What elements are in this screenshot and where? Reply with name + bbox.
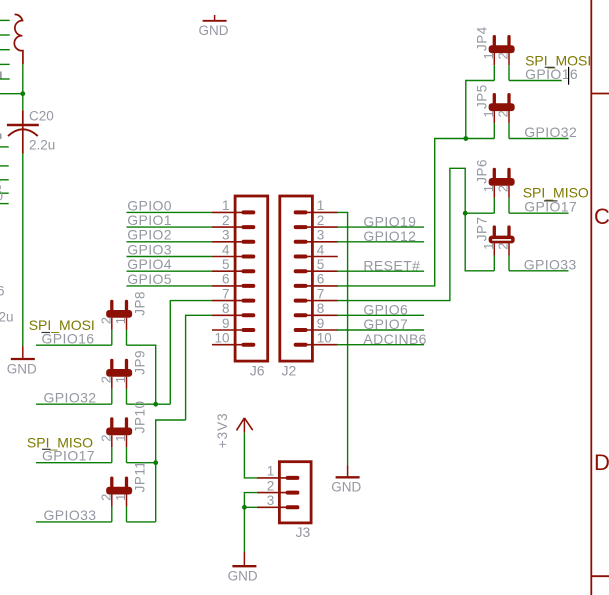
pin 2 of J3 bbox=[257, 492, 287, 494]
wire net GPIO32 (left) bbox=[36, 403, 112, 405]
svg-text:10: 10 bbox=[214, 331, 229, 346]
jumper JP9 bbox=[106, 369, 132, 377]
svg-text:GND: GND bbox=[199, 23, 229, 38]
junction JP10/JP11 bbox=[153, 460, 158, 465]
svg-text:GPIO0: GPIO0 bbox=[127, 197, 172, 213]
junction JP6/JP7 bbox=[463, 211, 468, 216]
svg-text:GPIO7: GPIO7 bbox=[363, 316, 408, 332]
wire +3V3 to J3 pin1 bbox=[244, 433, 257, 478]
wire stub left edge bbox=[0, 78, 10, 80]
frame row divider tick (D/E) bbox=[591, 575, 609, 577]
wire stub left edge bbox=[0, 192, 9, 194]
svg-text:2: 2 bbox=[98, 376, 113, 383]
junction J3 net bbox=[242, 505, 247, 510]
svg-text:6: 6 bbox=[222, 272, 230, 287]
svg-text:GPIO2: GPIO2 bbox=[127, 227, 172, 243]
svg-text:2: 2 bbox=[98, 494, 113, 501]
pin 1 of J3 bbox=[257, 477, 287, 479]
svg-text:1: 1 bbox=[481, 110, 496, 117]
pin 3 of J6 bbox=[212, 241, 242, 243]
svg-text:JP11: JP11 bbox=[132, 461, 147, 493]
wire J6 pin8 net bbox=[186, 315, 213, 420]
svg-text:ADCINB6: ADCINB6 bbox=[363, 331, 426, 347]
wire net GPIO7 bbox=[337, 329, 424, 331]
wire J6 pin7 net bbox=[170, 301, 212, 405]
wire stub left edge bbox=[0, 63, 10, 65]
svg-text:1: 1 bbox=[267, 464, 275, 479]
svg-text:6: 6 bbox=[317, 272, 325, 287]
wire stub left edge bbox=[0, 19, 10, 21]
frame border right bbox=[590, 0, 592, 595]
svg-text:1: 1 bbox=[113, 376, 128, 383]
wire net GPIO17 (left) bbox=[36, 462, 112, 464]
pin 7 of J2 bbox=[305, 300, 337, 302]
svg-text:2u: 2u bbox=[0, 310, 14, 325]
svg-text:0: 0 bbox=[0, 189, 3, 204]
svg-text:J2: J2 bbox=[282, 363, 297, 379]
ground GND (J2 pin1) bbox=[347, 465, 349, 477]
pin 1 of J6 bbox=[212, 211, 242, 213]
wire JP8.1 down bbox=[127, 345, 156, 404]
svg-text:GPIO19: GPIO19 bbox=[363, 213, 416, 229]
wire J6 pin8 vertical leg bbox=[156, 420, 186, 522]
svg-text:2: 2 bbox=[496, 52, 511, 59]
wire JP5.1 bbox=[466, 138, 495, 140]
pin 4 of J2 bbox=[305, 256, 337, 258]
wire net GPIO19 bbox=[337, 226, 424, 228]
svg-text:GPIO3: GPIO3 bbox=[127, 241, 172, 257]
connector J2 bbox=[280, 196, 313, 361]
svg-text:1: 1 bbox=[481, 52, 496, 59]
svg-text:2.2u: 2.2u bbox=[29, 137, 55, 152]
ground GND (top) bbox=[214, 15, 216, 21]
pin 3 of J3 bbox=[257, 506, 287, 508]
pin 9 of J6 bbox=[212, 329, 242, 331]
svg-text:GND: GND bbox=[228, 569, 258, 584]
svg-text:3: 3 bbox=[267, 493, 275, 508]
svg-text:1: 1 bbox=[317, 198, 325, 213]
wire net GPIO32 (right) bbox=[509, 138, 569, 140]
wire J2 pin6 net bbox=[337, 139, 466, 286]
svg-text:GPIO12: GPIO12 bbox=[363, 228, 416, 244]
partial label fragment bbox=[0, 134, 2, 140]
inductor L (partial, top-left) bbox=[14, 14, 23, 64]
pin 2 of J6 bbox=[212, 226, 242, 228]
pin 8 of J2 bbox=[305, 314, 337, 316]
svg-text:6: 6 bbox=[0, 283, 5, 298]
svg-text:1: 1 bbox=[222, 198, 230, 213]
overline mark bbox=[42, 448, 51, 450]
svg-text:2: 2 bbox=[98, 317, 113, 324]
wire JP10.1 bbox=[127, 462, 156, 464]
wire net GPIO5 bbox=[127, 285, 213, 287]
wire stub left edge bbox=[0, 146, 9, 148]
overline mark bbox=[545, 66, 555, 68]
supply +3V3 bbox=[237, 418, 245, 431]
wire stub from left edge bbox=[0, 93, 23, 95]
pin 5 of J6 bbox=[212, 270, 242, 272]
junction bbox=[20, 91, 25, 96]
svg-text:RESET#: RESET# bbox=[363, 257, 420, 273]
pin 6 of J6 bbox=[212, 285, 242, 287]
svg-text:3: 3 bbox=[222, 228, 230, 243]
svg-text:GPIO33: GPIO33 bbox=[44, 507, 97, 523]
text cursor bbox=[568, 67, 570, 85]
svg-text:9: 9 bbox=[222, 316, 230, 331]
svg-text:JP5: JP5 bbox=[474, 84, 489, 109]
svg-text:2: 2 bbox=[496, 185, 511, 192]
svg-text:5: 5 bbox=[317, 257, 325, 272]
svg-text:GPIO32: GPIO32 bbox=[44, 390, 97, 406]
svg-text:4: 4 bbox=[222, 242, 230, 257]
svg-text:5: 5 bbox=[222, 257, 230, 272]
junction JP8/JP9 bbox=[153, 402, 158, 407]
wire JP11.1 bbox=[127, 521, 156, 523]
svg-text:GPIO33: GPIO33 bbox=[524, 256, 577, 272]
wire junction to C20 bbox=[22, 94, 24, 111]
svg-text:7: 7 bbox=[317, 286, 325, 301]
pin 2 of J2 bbox=[305, 226, 337, 228]
junction JP4/JP5 bbox=[463, 136, 468, 141]
svg-text:GPIO4: GPIO4 bbox=[127, 256, 172, 272]
jumper JP6 bbox=[489, 178, 515, 186]
svg-text:GPIO1: GPIO1 bbox=[127, 212, 172, 228]
wire net GPIO16 (left) bbox=[36, 344, 112, 346]
ground GND (under C20) bbox=[22, 346, 24, 359]
wire net GPIO33 (right) bbox=[509, 270, 569, 272]
svg-text:1: 1 bbox=[113, 317, 128, 324]
wire stub left edge bbox=[0, 179, 9, 181]
svg-text:1: 1 bbox=[481, 243, 496, 250]
wire net GPIO0 bbox=[127, 211, 213, 213]
svg-text:JP4: JP4 bbox=[474, 26, 489, 51]
pin 10 of J6 bbox=[212, 344, 242, 346]
partial label fragment bbox=[0, 72, 2, 79]
svg-text:2: 2 bbox=[98, 434, 113, 441]
frame row divider tick (B/C) bbox=[591, 93, 609, 95]
connector J6 bbox=[235, 196, 268, 361]
svg-text:JP9: JP9 bbox=[132, 350, 147, 375]
jumper JP8 bbox=[106, 310, 132, 318]
svg-text:2: 2 bbox=[222, 213, 230, 228]
svg-text:GPIO6: GPIO6 bbox=[363, 302, 408, 318]
wire net GPIO17 (right) bbox=[509, 212, 569, 214]
overline mark bbox=[544, 200, 558, 202]
pin 6 of J2 bbox=[305, 285, 337, 287]
jumper JP11 bbox=[106, 487, 132, 495]
pin 1 of J2 bbox=[305, 211, 337, 213]
jumper JP7 (open) bbox=[489, 236, 515, 244]
svg-text:J3: J3 bbox=[296, 524, 311, 540]
wire J3 pin2/pin3 net bbox=[244, 493, 257, 508]
svg-text:+3V3: +3V3 bbox=[215, 412, 230, 448]
wire JP6.1 bbox=[465, 212, 494, 214]
pin 10 of J2 bbox=[305, 344, 337, 346]
ground GND (J3) bbox=[243, 552, 245, 566]
jumper JP4 bbox=[489, 45, 515, 53]
wire net GPIO1 bbox=[127, 226, 213, 228]
wire net GPIO33 (left) bbox=[36, 521, 112, 523]
svg-text:JP7: JP7 bbox=[474, 217, 489, 242]
svg-text:2: 2 bbox=[496, 243, 511, 250]
wire stub left edge bbox=[0, 49, 10, 51]
svg-text:2: 2 bbox=[317, 213, 325, 228]
svg-text:2: 2 bbox=[267, 478, 275, 493]
svg-text:GND: GND bbox=[7, 361, 37, 376]
svg-text:C: C bbox=[594, 204, 609, 229]
svg-text:GPIO5: GPIO5 bbox=[127, 271, 172, 287]
wire net GPIO3 bbox=[127, 256, 213, 258]
svg-text:D: D bbox=[594, 450, 609, 475]
svg-text:1: 1 bbox=[481, 185, 496, 192]
wire JP7.1 to junction bbox=[465, 213, 494, 271]
wire stub left edge bbox=[0, 203, 9, 205]
pin 8 of J6 bbox=[212, 314, 242, 316]
jumper JP10 bbox=[106, 428, 132, 436]
wire to GND bbox=[243, 507, 245, 552]
svg-text:1: 1 bbox=[113, 434, 128, 441]
wire net GPIO4 bbox=[127, 270, 213, 272]
wire net ADCINB6 bbox=[337, 344, 424, 346]
svg-text:GND: GND bbox=[331, 480, 361, 495]
svg-text:GPIO16: GPIO16 bbox=[525, 66, 578, 82]
svg-text:8: 8 bbox=[222, 301, 230, 316]
jumper JP5 bbox=[489, 103, 515, 111]
svg-text:JP8: JP8 bbox=[132, 291, 147, 316]
wire J2 pin7 net bbox=[337, 168, 465, 300]
wire stub left edge bbox=[0, 34, 10, 36]
wire stub left edge bbox=[0, 165, 9, 167]
pin 3 of J2 bbox=[305, 241, 337, 243]
pin 4 of J6 bbox=[212, 256, 242, 258]
svg-text:C20: C20 bbox=[29, 108, 54, 123]
svg-text:JP10: JP10 bbox=[132, 400, 147, 433]
wire net RESET# bbox=[337, 270, 424, 272]
wire net GPIO12 bbox=[337, 241, 424, 243]
svg-text:3: 3 bbox=[317, 228, 325, 243]
svg-text:4: 4 bbox=[317, 242, 325, 257]
pin 9 of J2 bbox=[305, 329, 337, 331]
svg-text:J6: J6 bbox=[250, 363, 265, 379]
connector J3 bbox=[279, 462, 311, 523]
svg-text:8: 8 bbox=[317, 301, 325, 316]
wire net GPIO16 (right) bbox=[509, 80, 562, 82]
wire C20 to GND bbox=[22, 154, 24, 347]
svg-text:1: 1 bbox=[113, 494, 128, 501]
wire net to junction bbox=[22, 64, 24, 93]
svg-text:9: 9 bbox=[317, 316, 325, 331]
svg-text:10: 10 bbox=[317, 331, 332, 346]
svg-text:GPIO32: GPIO32 bbox=[524, 124, 577, 140]
wire net GPIO2 bbox=[127, 241, 213, 243]
capacitor C20 bbox=[22, 110, 24, 125]
svg-text:7: 7 bbox=[222, 286, 230, 301]
wire JP9.1 bbox=[127, 403, 171, 405]
pin 5 of J2 bbox=[305, 270, 337, 272]
svg-text:JP6: JP6 bbox=[474, 159, 489, 184]
overline mark bbox=[42, 332, 51, 334]
pin 7 of J6 bbox=[212, 300, 242, 302]
wire JP4.1 to junction bbox=[466, 81, 495, 139]
svg-text:2: 2 bbox=[496, 110, 511, 117]
wire net GPIO6 bbox=[337, 314, 424, 316]
wire J2 pin1 to GND bbox=[337, 212, 348, 465]
